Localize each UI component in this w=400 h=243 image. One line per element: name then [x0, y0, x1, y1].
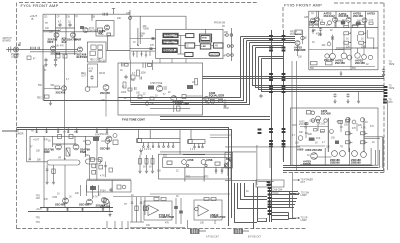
bus wire bundle line 5	[253, 45, 285, 47]
cell wire 1	[312, 23, 314, 28]
transistor Q131	[361, 152, 367, 158]
vertical from selector	[43, 183, 45, 207]
svg-text:10K 47K: 10K 47K	[55, 46, 64, 48]
transistor Q131L	[63, 198, 69, 204]
base feed wire	[44, 88, 62, 90]
FY05 box divider v4	[365, 11, 367, 48]
svg-text:1K: 1K	[83, 141, 86, 143]
terminal blobs lower	[383, 99, 387, 101]
FY05 box divider v2	[335, 11, 337, 27]
CN1 pins mid	[269, 73, 273, 75]
wire v1	[305, 122, 307, 138]
fan bracket upper	[289, 192, 291, 208]
vertical wire x270b	[269, 148, 271, 168]
resistor dark R121	[309, 138, 315, 141]
svg-text:OUT: OUT	[81, 76, 86, 78]
FY02 inner vres	[137, 70, 140, 76]
computer box 1	[144, 201, 172, 220]
svg-text:LAMP: LAMP	[301, 219, 308, 222]
selector row divider	[43, 31, 98, 33]
svg-text:CN14: CN14	[273, 193, 280, 195]
transistor Q101	[106, 136, 112, 142]
svg-text:COMPUTER: COMPUTER	[210, 215, 225, 219]
box cluster x109	[109, 168, 113, 172]
cell wire 4	[364, 23, 366, 28]
function block B7 tuner	[199, 34, 211, 42]
resistor grid RG5	[346, 132, 351, 135]
transistor Q92	[73, 144, 79, 150]
svg-text:FY01 FRONT AMP: FY01 FRONT AMP	[21, 3, 59, 8]
resistor grid RG6	[361, 132, 366, 135]
transistor Q46	[295, 41, 300, 46]
svg-text:100K: 100K	[141, 73, 147, 75]
svg-text:12B: 12B	[126, 13, 131, 15]
svg-text:DP: DP	[226, 157, 230, 161]
lower bus wire 1	[17, 128, 229, 227]
trimmer VR11	[62, 38, 66, 43]
jack pair 1	[226, 34, 229, 37]
capacitor with ground CG2	[54, 58, 57, 62]
selector top rail wire	[43, 13, 130, 15]
resistor box R51	[55, 86, 59, 89]
transistor Q123	[360, 118, 364, 122]
svg-text:B FY05 CKT: B FY05 CKT	[248, 237, 261, 239]
wire buffer out	[106, 50, 130, 52]
transistor Q62	[156, 85, 162, 91]
function block B4	[186, 34, 194, 38]
supply drop 2	[46, 127, 48, 133]
wire eq	[203, 97, 224, 99]
resistor dark R91	[93, 137, 99, 141]
fan bracket lower	[288, 213, 290, 220]
capacitor with ground CG1	[44, 58, 47, 62]
svg-text:1K: 1K	[69, 197, 72, 199]
svg-text:TR2: TR2	[186, 177, 191, 179]
transistor Q47	[325, 54, 329, 58]
tone wires	[186, 95, 203, 97]
resistor dark R122	[335, 141, 339, 145]
FY02 left cluster box	[131, 75, 135, 79]
svg-text:VR: VR	[140, 36, 144, 38]
connector column CN1	[271, 30, 273, 222]
svg-text:2SB595: 2SB595	[351, 160, 361, 164]
selector block container box	[156, 29, 223, 58]
svg-text:DIN: DIN	[389, 102, 393, 104]
transistor Q91	[56, 144, 62, 150]
svg-text:22K: 22K	[308, 134, 313, 136]
wire v Q48	[332, 42, 334, 54]
svg-text:VR: VR	[58, 158, 62, 160]
svg-text:10K: 10K	[200, 223, 205, 225]
svg-text:1K: 1K	[48, 141, 51, 143]
function block B1	[163, 33, 178, 37]
mid blob 1	[174, 206, 178, 209]
wire h3	[317, 156, 332, 158]
circle QM	[327, 42, 331, 46]
capacitor C3	[33, 47, 35, 50]
svg-text:TUNER: TUNER	[16, 134, 24, 136]
resistor box R45	[352, 25, 358, 27]
transistor Q43b	[328, 21, 332, 25]
svg-text:ATW: ATW	[52, 196, 58, 199]
selector vertical wire 1	[42, 14, 44, 100]
svg-text:50K: 50K	[131, 80, 136, 82]
fan lower wires	[272, 212, 289, 214]
cn stub pins	[258, 129, 262, 131]
capacitor C12	[68, 23, 71, 27]
svg-text:1CK: 1CK	[316, 138, 321, 140]
row divider v3	[370, 148, 372, 165]
svg-text:FY02 TONE CONT: FY02 TONE CONT	[122, 118, 145, 122]
capacitor ground CG71	[223, 99, 226, 103]
svg-text:TR2: TR2	[204, 177, 209, 179]
transistor Q3	[51, 46, 56, 51]
svg-text:12B: 12B	[304, 17, 309, 19]
FY03 verticals down	[184, 167, 186, 181]
svg-text:TAPE: TAPE	[389, 63, 395, 66]
volume slider wire	[27, 161, 48, 163]
svg-text:47K: 47K	[44, 199, 49, 201]
svg-text:SWITCH: SWITCH	[210, 54, 219, 56]
wire above fy04	[87, 178, 131, 180]
svg-text:100 10K: 100 10K	[206, 104, 215, 106]
svg-text:10K: 10K	[36, 151, 41, 153]
svg-text:FY05 FRONT AMP: FY05 FRONT AMP	[284, 3, 322, 8]
FY05 box divider v1	[317, 11, 319, 27]
transistor Q103	[201, 160, 206, 165]
svg-text:Y10: Y10	[101, 73, 106, 75]
svg-text:TAPE: TAPE	[389, 87, 395, 90]
terminal pins stack	[384, 86, 388, 88]
below slider res	[53, 165, 55, 180]
transistor Q101b	[113, 134, 117, 138]
resistor box R41	[321, 22, 325, 24]
transistor Q45b	[356, 21, 360, 25]
fy04 inner dark	[90, 186, 96, 190]
jack pair 3	[227, 54, 230, 57]
svg-text:JR: JR	[222, 26, 225, 28]
svg-text:IN: IN	[44, 70, 47, 72]
svg-text:TONE: TONE	[143, 29, 150, 31]
supply drop 5	[76, 127, 78, 133]
selector row wire 2	[43, 30, 60, 32]
wire to plug1	[187, 220, 189, 229]
small marks	[186, 164, 188, 166]
wire FY05 left	[297, 46, 299, 57]
vertical resistor R65	[195, 78, 198, 85]
selector vertical wire 5	[91, 14, 93, 21]
svg-text:1 2 3: 1 2 3	[190, 149, 196, 151]
TO SP label	[293, 196, 300, 219]
svg-text:EQUALIZER: EQUALIZER	[209, 94, 225, 98]
transistor Q61	[103, 85, 109, 91]
resistor box R52	[45, 95, 50, 98]
right res boxes r4	[99, 165, 103, 169]
phono input stub	[2, 130, 17, 132]
small circle B	[324, 119, 327, 122]
supply drop 3	[57, 127, 59, 133]
long vertical wire to volume	[64, 55, 66, 160]
right wire down	[386, 100, 388, 170]
svg-text:2SC458: 2SC458	[335, 61, 345, 65]
svg-text:2SC458: 2SC458	[309, 22, 319, 26]
tone network vertical	[139, 16, 141, 44]
transistor Q43	[333, 17, 338, 22]
row divider v2	[349, 148, 351, 165]
supply line inside FY02	[130, 60, 132, 103]
FY05 enclosure dashed top border	[334, 2, 384, 4]
svg-text:CKT: CKT	[301, 182, 306, 184]
transistor Q133L	[103, 199, 109, 205]
transistor Q94	[105, 139, 110, 144]
plug P2	[234, 229, 243, 234]
svg-text:A798: A798	[187, 158, 194, 162]
long wire B	[28, 211, 113, 213]
svg-text:TP: TP	[74, 132, 77, 134]
row bottom wire	[300, 164, 371, 166]
resistor box R66	[177, 106, 181, 111]
svg-text:2SC458: 2SC458	[51, 52, 61, 56]
resistor dark R42	[341, 22, 345, 25]
transistor row link wire	[53, 143, 76, 145]
ground G92	[52, 180, 55, 184]
resistor box RD	[98, 50, 102, 58]
mid vertical 1	[175, 198, 177, 224]
svg-text:TONE AMP: TONE AMP	[175, 102, 189, 106]
FY02 inner box b	[128, 88, 132, 91]
svg-text:1K 100: 1K 100	[318, 124, 326, 126]
wire y222	[130, 221, 144, 223]
lower box inner parts	[306, 111, 311, 114]
wire v Q52	[363, 45, 365, 55]
resistor box R71	[211, 99, 215, 102]
capacitor C13t	[109, 188, 112, 192]
svg-text:47K: 47K	[165, 223, 170, 225]
svg-text:FROM SW: FROM SW	[214, 23, 226, 25]
wire v Q49	[343, 35, 345, 46]
plug P2 wire	[243, 230, 250, 232]
svg-text:22K: 22K	[101, 100, 106, 102]
CN2 pins mid	[282, 73, 286, 75]
resistor grid RG1	[344, 32, 349, 35]
wire below slider	[64, 165, 66, 208]
svg-text:C458: C458	[310, 120, 316, 122]
transistor Q127	[311, 153, 318, 160]
cell wire 3	[348, 22, 350, 25]
fy05 bottom nested wires	[283, 166, 384, 171]
supply drop 1	[36, 127, 38, 133]
supply drop 7	[106, 127, 108, 133]
corner wire	[367, 30, 374, 49]
function block B10 switch	[209, 53, 220, 57]
function block B3	[162, 48, 177, 52]
slider wiper	[64, 158, 66, 160]
svg-text:1K: 1K	[176, 196, 179, 198]
svg-text:4.7K: 4.7K	[369, 20, 374, 22]
FY05 mid-left wire	[302, 30, 304, 44]
svg-text:PAIR: PAIR	[75, 38, 81, 42]
bus wire bundle line 6	[256, 47, 285, 49]
box above fan	[256, 180, 284, 187]
wire v2	[317, 123, 319, 131]
connector column CN2	[283, 30, 285, 162]
resistor box RA	[91, 45, 96, 49]
resistor box R21	[98, 28, 103, 32]
lower grid vertical rail 1	[29, 136, 31, 160]
svg-text:4.7K: 4.7K	[361, 128, 366, 130]
ground G13	[108, 213, 111, 217]
heavy vertical 1	[327, 118, 329, 152]
jack pair 2	[227, 45, 230, 48]
function block B5	[185, 43, 195, 48]
gnd stubs	[106, 221, 108, 228]
bus wire bundle line 3	[247, 40, 296, 42]
FY05 box divider h1	[309, 27, 378, 29]
strip feed wires	[138, 130, 140, 139]
resistor box R123	[338, 121, 343, 124]
wire v Q51	[357, 35, 359, 41]
CN2 pins lower	[282, 128, 286, 130]
wire drop to block box	[185, 16, 187, 29]
FY02 inner cap	[134, 87, 136, 90]
wire y194	[150, 193, 230, 195]
FY05 box divider v3	[350, 11, 352, 70]
transistor Q41	[311, 18, 316, 23]
svg-text:50K: 50K	[37, 160, 42, 162]
resistor dark R62	[148, 86, 154, 90]
svg-text:CD: CD	[44, 17, 48, 19]
function block B6	[185, 53, 193, 57]
svg-text:1K: 1K	[346, 39, 349, 41]
supply drop 6	[96, 127, 98, 133]
vres pair 1	[139, 159, 142, 165]
vertical x257b	[257, 187, 259, 218]
svg-text:1K: 1K	[192, 82, 195, 84]
svg-text:1K: 1K	[312, 42, 315, 44]
feedback res 2a	[204, 198, 209, 201]
svg-text:B: B	[32, 17, 34, 21]
transistor Q44b	[341, 21, 345, 25]
lower grid top wire	[30, 135, 100, 137]
transistor row Q49	[341, 53, 347, 59]
wire under fy03	[225, 179, 257, 181]
svg-text:TP: TP	[124, 204, 127, 206]
svg-text:2SC458: 2SC458	[353, 14, 363, 18]
heavy vertical 3	[363, 118, 365, 152]
svg-text:1K: 1K	[342, 20, 345, 22]
FY01 enclosure dashed left border	[16, 3, 18, 229]
small circle A	[316, 119, 319, 122]
svg-text:LED: LED	[202, 46, 207, 48]
svg-text:1K: 1K	[120, 70, 123, 72]
resistor box 522	[167, 161, 172, 164]
junction X mark	[331, 37, 334, 40]
pins in fan box	[267, 181, 271, 183]
svg-text:TP: TP	[75, 17, 78, 19]
svg-text:DRIVE: DRIVE	[303, 162, 311, 166]
svg-text:CN6 CN4: CN6 CN4	[273, 190, 284, 192]
jack column wire	[224, 28, 233, 61]
bus wire bundle line 4	[250, 42, 296, 44]
FY05 lower box	[291, 108, 379, 165]
transistor Q45	[362, 18, 367, 23]
transistor row Q51	[355, 53, 360, 58]
bottom left part box B	[56, 55, 60, 59]
resistor grid RG4	[359, 41, 364, 44]
svg-text:10K: 10K	[326, 147, 331, 149]
block box drop wires	[159, 59, 161, 64]
FY03 top wire	[159, 152, 257, 182]
right nested vertical 1	[291, 61, 293, 166]
transistor row Q50	[347, 55, 352, 60]
input jack J1	[8, 47, 10, 52]
right res boxes r2	[98, 158, 102, 162]
svg-text:LOW: LOW	[11, 57, 17, 59]
vertical wire x257	[256, 145, 258, 185]
TO POWER CKT label	[293, 173, 300, 219]
selector partial row wire	[56, 27, 76, 29]
12B supply vertical wire	[129, 10, 131, 60]
ecap EG5	[312, 29, 314, 35]
rec out switch sub-box	[87, 42, 106, 62]
svg-text:A798: A798	[206, 158, 213, 162]
FY02 left vres	[123, 82, 126, 88]
svg-text:1K: 1K	[149, 167, 152, 169]
transistor Q121	[311, 119, 315, 123]
svg-text:A FY03 CKT: A FY03 CKT	[206, 236, 219, 239]
Q61 down wire	[105, 91, 107, 117]
transistor Q102	[182, 160, 187, 165]
svg-text:IC: IC	[187, 46, 190, 48]
svg-text:100K: 100K	[121, 92, 127, 94]
transistor Q122	[346, 117, 350, 121]
computer box 2	[194, 200, 222, 220]
FY02 left box2	[138, 95, 142, 99]
svg-text:A050: A050	[297, 148, 304, 152]
transistor Q124	[352, 120, 356, 124]
svg-text:1K: 1K	[143, 167, 146, 169]
lower grid vertical rail 2	[43, 136, 45, 183]
transistor Q44	[346, 17, 351, 22]
VR vertical wire	[137, 28, 139, 46]
rec out amp box	[88, 64, 98, 87]
resistor box R72	[219, 99, 223, 102]
cell row wire	[336, 20, 346, 22]
strip drop wire	[179, 143, 181, 155]
resistor dark R64	[187, 85, 193, 89]
terminal capacitor T1	[382, 68, 385, 72]
transistor Q13	[83, 28, 88, 33]
bus link wires	[210, 134, 231, 136]
transistor row Q48	[330, 53, 336, 59]
diag arrow	[223, 160, 230, 169]
corner wires right	[364, 137, 383, 168]
ground stub EC3	[358, 92, 360, 99]
transistor Q53	[85, 87, 90, 92]
resistor box R101	[113, 140, 118, 145]
drop wires from grid	[80, 185, 82, 196]
fan feeder 2	[238, 183, 268, 209]
block link wires	[178, 35, 186, 37]
cap vertical 4	[144, 197, 146, 215]
svg-text:DIFF: DIFF	[48, 40, 54, 44]
svg-text:47K: 47K	[318, 35, 323, 37]
cell wire 2	[334, 22, 336, 27]
function block B8	[200, 44, 211, 49]
capacitor C22	[105, 13, 107, 16]
volume slider VR2	[86, 159, 102, 164]
lower grid vertical rail 4	[74, 136, 76, 144]
